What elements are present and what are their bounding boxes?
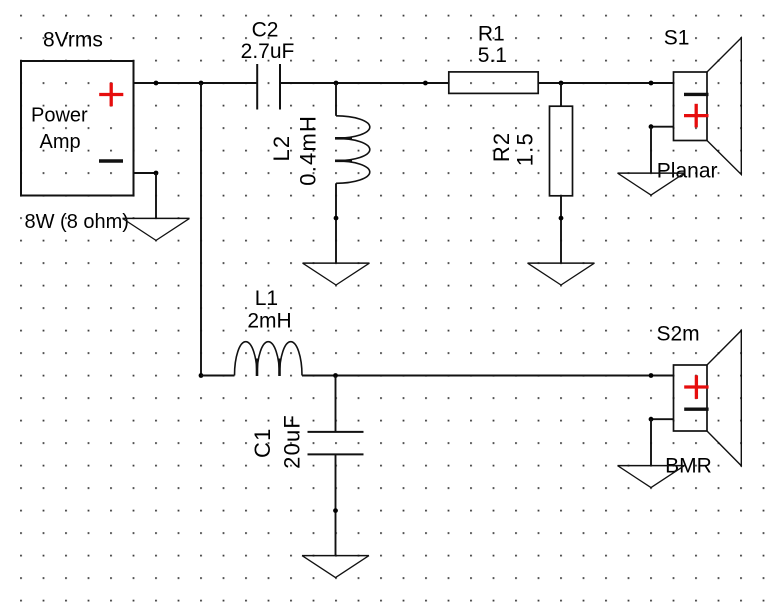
svg-text:C1: C1 — [250, 427, 275, 458]
node corner dot at L1 rail — [199, 373, 204, 378]
svg-text:R2: R2 — [489, 132, 514, 163]
inductor L1 coils — [235, 342, 303, 376]
resistor R2 body — [550, 106, 573, 196]
node junction dot top rail to drop wire — [199, 81, 204, 86]
svg-text:8W (8 ohm): 8W (8 ohm) — [25, 211, 129, 233]
node dot S2m terminal 2 — [649, 417, 654, 422]
wire S1 terminal 2 down to ground — [650, 127, 652, 173]
node dot below L2 — [334, 216, 339, 221]
ground symbol below S1 — [618, 173, 685, 195]
L1 coil cusp marks — [257, 359, 280, 377]
node dot S2m terminal 1 — [649, 373, 654, 378]
node dot before R1 — [423, 81, 428, 86]
V1 plus polarity mark — [99, 83, 123, 107]
wire V1 minus down to ground — [155, 173, 157, 218]
wire V1 plus terminal to C2 — [134, 82, 258, 84]
svg-text:8Vrms: 8Vrms — [43, 29, 103, 52]
svg-text:Amp: Amp — [40, 131, 81, 153]
svg-text:R1: R1 — [478, 23, 505, 46]
resistor R1 body — [449, 72, 538, 94]
node junction dot at L2 top — [334, 81, 339, 86]
S2m minus polarity mark — [684, 408, 708, 411]
svg-text:C2: C2 — [252, 19, 279, 42]
svg-text:Planar: Planar — [657, 159, 718, 182]
ground symbol below R2 — [528, 263, 595, 285]
svg-text:S1: S1 — [664, 27, 690, 50]
svg-text:Power: Power — [31, 105, 88, 127]
ground symbol below S2m — [618, 466, 685, 488]
ground symbol below L2 — [303, 263, 370, 285]
svg-text:1.5: 1.5 — [512, 132, 537, 166]
ground symbol below V1 — [123, 218, 190, 240]
svg-text:L2: L2 — [269, 135, 294, 162]
wire junction down to R2 — [560, 83, 562, 106]
speaker S2m body — [674, 331, 742, 466]
node dot S1 terminal 1 — [649, 81, 654, 86]
wire L2 bottom stem to ground — [335, 183, 337, 263]
node dot at V1 minus terminal — [154, 171, 159, 176]
node junction dot R1/R2 — [559, 81, 564, 86]
capacitor C1 plates — [308, 432, 364, 455]
wire C2 to R1 — [280, 82, 449, 84]
svg-text:S2m: S2m — [657, 323, 700, 346]
wire C1 bottom stem to ground — [335, 454, 337, 555]
svg-text:L1: L1 — [255, 287, 278, 310]
wire C1 top stem — [335, 376, 337, 432]
wire R1 to S1 — [538, 82, 673, 84]
ground symbol below C1 — [302, 556, 369, 578]
node junction dot L1/C1 — [333, 373, 338, 378]
node dot S1 terminal 2 — [649, 124, 654, 129]
svg-text:0.4mH: 0.4mH — [295, 115, 320, 186]
voltage source V1 Power Amp box — [21, 61, 134, 196]
wire S2m terminal 2 down to ground — [650, 419, 652, 465]
node dot below R2 — [559, 216, 564, 221]
capacitor C2 plates — [257, 64, 280, 110]
wire S2m terminal 2 stub — [651, 418, 674, 420]
wire V1 minus terminal stub — [134, 172, 157, 174]
wire R2 to ground — [560, 196, 562, 263]
S2m plus polarity mark — [684, 375, 708, 399]
S1 plus polarity mark — [684, 104, 709, 128]
wire corner to L1 — [201, 375, 235, 377]
svg-text:2.7uF: 2.7uF — [241, 40, 295, 63]
wire L1 to S2m — [302, 375, 674, 377]
S1 minus polarity mark — [684, 93, 709, 96]
wire drop from top rail down to L1 rail — [200, 83, 202, 376]
node dot below C1 — [333, 508, 338, 513]
wire S1 terminal 2 stub — [651, 126, 674, 128]
svg-text:5.1: 5.1 — [478, 44, 507, 67]
wire L2 top stem — [335, 83, 337, 116]
V1 minus polarity mark — [99, 159, 123, 162]
speaker S1 body — [674, 38, 742, 175]
L2 coil cusp marks — [335, 138, 352, 161]
node dot at V1 plus terminal — [154, 81, 159, 86]
svg-text:2mH: 2mH — [247, 310, 291, 333]
inductor L2 coils — [336, 116, 370, 184]
svg-text:20uF: 20uF — [279, 414, 304, 469]
